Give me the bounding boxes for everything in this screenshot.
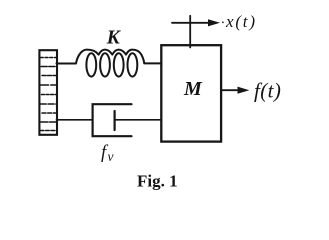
wall [39,50,57,135]
svg-text:f(t): f(t) [254,78,281,102]
displacement reference line [189,16,191,48]
force arrow f(t) shaft [222,89,239,91]
wire damper left [57,119,93,121]
svg-text:x(t): x(t) [225,12,257,31]
svg-text:K: K [106,28,122,49]
mass M block [161,45,221,141]
spring K coil loops [86,53,137,76]
displacement arrow x(t) shaft [172,22,209,24]
svg-text:fv: fv [101,143,113,164]
damper piston rod wire [115,119,161,121]
damper fv cylinder [93,104,132,136]
damper piston plate [113,111,115,130]
speck before x(t) [222,22,224,24]
svg-text:Fig. 1: Fig. 1 [137,172,178,191]
displacement arrow x(t) head [208,19,220,26]
svg-text:M: M [183,78,203,100]
force arrow f(t) head [238,87,250,94]
spring K top arcs and wires [57,50,161,64]
